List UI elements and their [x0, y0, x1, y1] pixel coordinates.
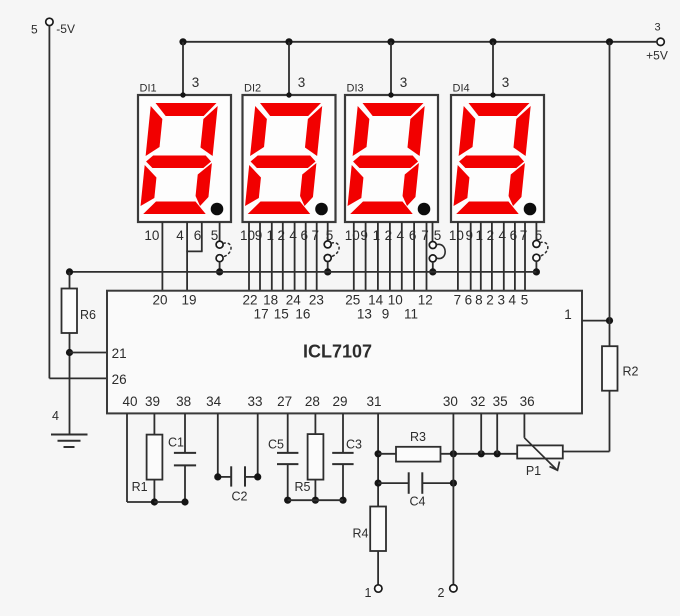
- svg-text:7: 7: [454, 293, 462, 308]
- wire R3 right to P1 line: [441, 453, 518, 455]
- wire DI2 pin 3 from +5V bus: [288, 42, 290, 95]
- svg-text:9: 9: [465, 228, 473, 243]
- resistor R2: [602, 346, 618, 391]
- display DI4: [451, 95, 544, 222]
- svg-text:R1: R1: [132, 480, 148, 494]
- pad DI2 DP upper: [324, 241, 331, 248]
- svg-text:27: 27: [277, 394, 292, 409]
- wire IC pin 40: [126, 413, 128, 502]
- svg-text:4: 4: [176, 228, 184, 243]
- svg-text:C4: C4: [410, 495, 426, 509]
- svg-text:R3: R3: [410, 430, 426, 444]
- svg-text:7: 7: [520, 228, 528, 243]
- svg-text:R6: R6: [80, 308, 96, 322]
- wire DI1 DP pad to bus: [219, 262, 221, 272]
- power terminal +5V (pin 3): [657, 38, 664, 45]
- svg-text:7: 7: [421, 228, 429, 243]
- svg-text:5: 5: [211, 228, 219, 243]
- svg-text:25: 25: [345, 293, 360, 308]
- svg-text:34: 34: [206, 394, 222, 409]
- wire IC pin 30 to terminal 2: [452, 413, 454, 584]
- wire IC pin 36 to P1 wiper: [523, 413, 525, 437]
- svg-text:28: 28: [305, 394, 320, 409]
- svg-text:3: 3: [497, 293, 505, 308]
- svg-text:10: 10: [144, 228, 159, 243]
- svg-text:15: 15: [274, 307, 289, 322]
- junction top bus DI4: [489, 38, 496, 45]
- junction pin 1 +5V branch: [606, 317, 613, 324]
- wire DI4 pin 1 to IC pin 8: [480, 222, 482, 291]
- svg-text:P1: P1: [526, 464, 541, 478]
- pad DI2 DP lower: [324, 255, 331, 262]
- svg-text:4: 4: [52, 409, 59, 423]
- capacitor C3: [332, 452, 353, 454]
- svg-text:22: 22: [242, 293, 257, 308]
- svg-text:1: 1: [564, 307, 572, 322]
- junction C1 bottom: [181, 498, 188, 505]
- wire DI2 pin 2 to IC pin 15: [282, 222, 284, 291]
- wire C2 to IC pin 33: [245, 476, 258, 478]
- svg-text:26: 26: [112, 372, 127, 387]
- wire -5V vertical: [48, 26, 50, 379]
- svg-text:4: 4: [397, 228, 405, 243]
- wire DI4 pin 9 to IC pin 6: [470, 222, 472, 291]
- potentiometer P1: [517, 445, 563, 458]
- svg-text:19: 19: [181, 293, 196, 308]
- junction top bus DI2: [285, 38, 292, 45]
- wire DI3 pin 1 to IC pin 14: [377, 222, 379, 291]
- pad DI3 DP lower: [429, 255, 436, 262]
- junction R6 pin 21: [66, 349, 73, 356]
- wire DI1 pin 3 from +5V bus: [182, 42, 184, 95]
- svg-text:6: 6: [194, 228, 202, 243]
- wire C5 bottom: [287, 464, 289, 500]
- wire DI3 pin 6 to IC pin 11: [413, 222, 415, 291]
- svg-text:10: 10: [388, 293, 403, 308]
- svg-text:3: 3: [298, 75, 306, 90]
- jumper arc DI4 (dotted): [540, 242, 548, 256]
- svg-text:DI2: DI2: [244, 83, 261, 95]
- wire DI2 DP pad to bus: [327, 262, 329, 272]
- svg-text:11: 11: [404, 307, 418, 322]
- resistor R4: [370, 507, 386, 552]
- wire IC pin 26: [49, 377, 107, 379]
- svg-text:39: 39: [145, 394, 160, 409]
- svg-text:10: 10: [449, 228, 464, 243]
- P1 wiper arrow: [524, 438, 557, 470]
- svg-text:12: 12: [418, 293, 433, 308]
- pad DI4 DP lower: [533, 254, 540, 261]
- svg-text:9: 9: [255, 228, 263, 243]
- display DI1: [138, 95, 231, 222]
- svg-text:DI1: DI1: [140, 83, 157, 95]
- wire IC pin 27 to C5: [287, 413, 289, 453]
- power terminal -5V (pin 5): [46, 18, 53, 25]
- wire DI3 pin 2 to IC pin 9: [389, 222, 391, 291]
- wire DI4 pin 6 to IC pin 4: [514, 222, 516, 291]
- jumper arc DI1 (dotted): [223, 243, 231, 257]
- svg-text:38: 38: [176, 394, 191, 409]
- input terminal 1: [375, 585, 382, 592]
- junction pin31 R3: [375, 450, 382, 457]
- wire DI2 pin 10 to IC pin 22: [248, 222, 250, 291]
- op-amp IC U1 ICL7107: [107, 291, 582, 414]
- wire DI1 pin 10 to IC pin 20: [161, 222, 163, 291]
- svg-text:36: 36: [520, 394, 535, 409]
- wire DI3 pin 9 to IC pin 13: [365, 222, 367, 291]
- wire DI4 pin 10 to IC pin 7: [457, 222, 459, 291]
- svg-text:20: 20: [152, 293, 167, 308]
- svg-text:3: 3: [400, 75, 408, 90]
- wire DI1 pin 6 jumper to pin 4: [201, 222, 203, 251]
- junction C4 pin30: [450, 480, 457, 487]
- svg-text:32: 32: [470, 394, 485, 409]
- wire DI4 pin 4 to IC pin 3: [503, 222, 505, 291]
- junction DI4 DP bus: [533, 268, 540, 275]
- junction top bus DI3: [387, 38, 394, 45]
- svg-text:35: 35: [493, 394, 508, 409]
- display DI3: [345, 95, 438, 222]
- svg-text:5: 5: [521, 293, 529, 308]
- svg-text:2: 2: [385, 228, 393, 243]
- wire DI3 pin 5 to pad: [432, 222, 434, 241]
- svg-text:6: 6: [510, 228, 518, 243]
- wire DI4 DP pad to bus: [535, 261, 537, 272]
- svg-text:1: 1: [365, 586, 372, 600]
- svg-text:4: 4: [289, 228, 297, 243]
- junction DI3 pin 3: [388, 92, 393, 97]
- junction R1 bottom: [151, 498, 158, 505]
- svg-text:1: 1: [476, 228, 484, 243]
- junction DI1 pin 3: [180, 92, 185, 97]
- svg-text:10: 10: [345, 228, 360, 243]
- wire DI3 pin 10 to IC pin 25: [353, 222, 355, 291]
- svg-text:R2: R2: [623, 365, 639, 379]
- resistor R5: [308, 434, 324, 480]
- wire R4 to terminal 1: [377, 551, 379, 585]
- wire IC pin 31 down: [377, 413, 379, 506]
- wire DI4 pin 2 to IC pin 2: [491, 222, 493, 291]
- svg-text:29: 29: [332, 394, 347, 409]
- svg-text:DI3: DI3: [347, 83, 364, 95]
- svg-text:9: 9: [382, 307, 390, 322]
- wire IC pin 39 to R1: [153, 413, 155, 434]
- junction DI2 pin 3: [286, 92, 291, 97]
- display DI2: [243, 95, 336, 222]
- svg-text:6: 6: [465, 293, 473, 308]
- svg-text:10: 10: [240, 228, 255, 243]
- pad DI1 DP lower: [216, 255, 223, 262]
- wire top +5V bus: [183, 41, 657, 43]
- capacitor C2: [230, 466, 232, 486]
- svg-text:3: 3: [502, 75, 510, 90]
- svg-text:1: 1: [373, 228, 381, 243]
- decimal point DI2: [315, 203, 328, 216]
- svg-text:6: 6: [409, 228, 417, 243]
- svg-text:8: 8: [475, 293, 483, 308]
- junction top bus DI1: [179, 38, 186, 45]
- wire DI2 pin 5 to pad: [327, 222, 329, 241]
- wire C1 bottom: [184, 465, 186, 502]
- wire DI3 DP pad to bus: [432, 262, 434, 272]
- wire IC pin 38 to C1: [184, 413, 186, 453]
- resistor R1: [147, 435, 163, 480]
- wire R6 top: [69, 272, 71, 289]
- wire IC pin 21: [70, 352, 108, 354]
- junction pin31 C4: [375, 480, 382, 487]
- wire IC pin 29 to C3: [342, 413, 344, 453]
- junction pin32 end: [478, 450, 485, 457]
- decimal point DI1: [211, 203, 224, 216]
- resistor R6: [62, 289, 78, 334]
- wire DI4 pin 3 from +5V bus: [492, 42, 494, 95]
- resistor R3: [396, 447, 441, 462]
- pad DI1 DP upper: [216, 241, 223, 248]
- jumper arc DI2 (dotted): [332, 243, 340, 257]
- wire IC pin 28 to R5: [314, 413, 316, 434]
- junction R3 pin30: [450, 450, 457, 457]
- wire C3 bottom: [342, 464, 344, 500]
- svg-text:1: 1: [267, 228, 275, 243]
- svg-text:14: 14: [368, 293, 384, 308]
- svg-text:R5: R5: [295, 480, 311, 494]
- svg-text:24: 24: [286, 293, 302, 308]
- svg-text:3: 3: [192, 75, 200, 90]
- svg-text:C5: C5: [268, 437, 284, 451]
- wire R3 left: [378, 453, 396, 455]
- wire R2 bottom to P1: [609, 391, 611, 452]
- decimal point DI4: [524, 203, 537, 216]
- svg-text:R4: R4: [353, 526, 369, 540]
- wire DI4 pin 5 to pad: [535, 222, 537, 240]
- wire R1 bottom: [153, 480, 155, 502]
- wire DI2 pin 9 to IC pin 17: [259, 222, 261, 291]
- svg-text:4: 4: [508, 293, 516, 308]
- junction top bus right branch: [606, 38, 613, 45]
- svg-text:C2: C2: [232, 490, 248, 504]
- svg-text:33: 33: [247, 394, 262, 409]
- svg-text:30: 30: [443, 394, 458, 409]
- capacitor C1: [174, 452, 196, 454]
- svg-text:13: 13: [357, 307, 372, 322]
- decimal point DI3: [418, 203, 431, 216]
- ground symbol: [51, 434, 88, 436]
- junction DI3 DP bus: [429, 268, 436, 275]
- svg-text:6: 6: [300, 228, 308, 243]
- svg-text:23: 23: [309, 293, 324, 308]
- svg-text:4: 4: [499, 228, 507, 243]
- svg-text:5: 5: [434, 228, 442, 243]
- svg-text:3: 3: [654, 22, 660, 34]
- wire IC pin 35: [496, 413, 498, 453]
- svg-text:5: 5: [31, 22, 38, 36]
- wire DI3 pin 3 from +5V bus: [390, 42, 392, 95]
- svg-text:40: 40: [122, 394, 137, 409]
- svg-text:2: 2: [487, 228, 495, 243]
- capacitor C5: [277, 452, 298, 454]
- junction DI1 DP bus: [216, 268, 223, 275]
- junction C3 bottom: [339, 497, 346, 504]
- junction pin35 end: [494, 450, 501, 457]
- junction C5 bottom: [284, 497, 291, 504]
- svg-text:C1: C1: [168, 436, 184, 450]
- svg-text:2: 2: [438, 586, 445, 600]
- svg-text:9: 9: [360, 228, 368, 243]
- junction C2 right: [254, 473, 261, 480]
- wire IC pin 34 to C2: [217, 413, 219, 477]
- input terminal 2: [450, 585, 457, 592]
- wire DI2 pin 1 to IC pin 18: [271, 222, 273, 291]
- wire IC pin 1: [582, 320, 610, 322]
- wire +5V branch down to R2: [609, 42, 611, 346]
- svg-text:DI4: DI4: [453, 83, 470, 95]
- jumper loop DI3 (solid): [437, 244, 446, 258]
- wire DI2 pin 7 to IC pin 23: [316, 222, 318, 291]
- wire DI2 pin 6 to IC pin 16: [305, 222, 307, 291]
- svg-text:31: 31: [366, 394, 381, 409]
- junction DP bus at R6: [66, 268, 73, 275]
- junction R5 bottom: [312, 497, 319, 504]
- wire IC pin 32: [480, 413, 482, 453]
- wire DI4 pin 7 to IC pin 5: [524, 222, 526, 291]
- svg-text:18: 18: [263, 293, 278, 308]
- wire DI2 pin 4 to IC pin 24: [294, 222, 296, 291]
- wire DI1 pin 4 to IC pin 19: [186, 222, 188, 291]
- svg-text:21: 21: [112, 346, 127, 361]
- junction DI2 DP bus: [324, 268, 331, 275]
- svg-text:7: 7: [311, 228, 319, 243]
- junction DI4 pin 3: [490, 92, 495, 97]
- svg-text:ICL7107: ICL7107: [303, 342, 372, 362]
- wire DI3 pin 4 to IC pin 10: [401, 222, 403, 291]
- svg-text:-5V: -5V: [56, 22, 75, 36]
- wire DP common bus: [70, 271, 537, 273]
- svg-text:+5V: +5V: [646, 49, 668, 63]
- svg-text:2: 2: [278, 228, 286, 243]
- wire C4 right: [422, 482, 453, 484]
- svg-text:16: 16: [295, 307, 310, 322]
- svg-text:17: 17: [254, 307, 269, 322]
- wire R5 bottom: [314, 480, 316, 501]
- wire C4 left: [378, 482, 409, 484]
- wire R6 bottom to ground: [69, 333, 71, 435]
- wire analog common net: [288, 499, 343, 501]
- svg-text:2: 2: [486, 293, 494, 308]
- svg-text:C3: C3: [346, 437, 362, 451]
- wire DI3 pin 7 to IC pin 12: [426, 222, 428, 291]
- junction C2 left: [214, 473, 221, 480]
- capacitor C4: [408, 472, 410, 494]
- wire DI1 pin 5 to pad: [219, 222, 221, 241]
- pad DI3 DP upper: [429, 242, 436, 249]
- pad DI4 DP upper: [533, 240, 540, 247]
